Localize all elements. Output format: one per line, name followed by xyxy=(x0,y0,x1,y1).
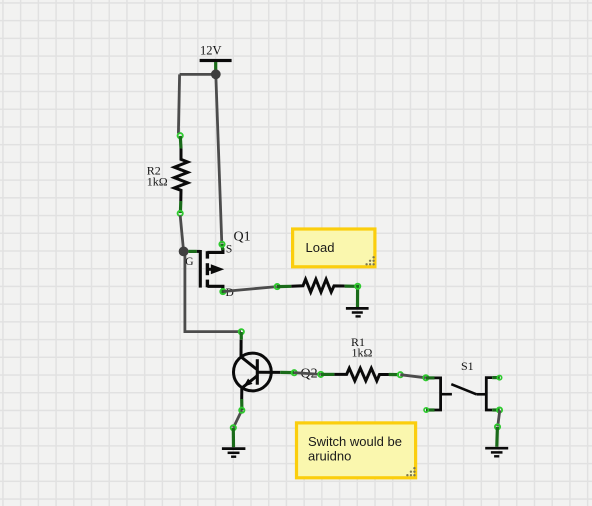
node ring Q2 base xyxy=(292,370,297,375)
wire Q2 base to R1 xyxy=(294,373,321,375)
wire Q2 emitter to ground xyxy=(233,410,242,428)
ground under Q2 emitter xyxy=(222,449,246,457)
svg-text:S1: S1 xyxy=(461,359,474,373)
wire S1 to ground xyxy=(498,410,500,426)
node square R1 left wire end xyxy=(318,372,323,377)
wire R1 to switch S1 xyxy=(400,375,426,378)
svg-text:Load: Load xyxy=(306,240,335,255)
note Switch box xyxy=(297,423,416,478)
svg-text:S: S xyxy=(226,244,232,256)
note Load box xyxy=(293,229,375,267)
svg-text:Q1: Q1 xyxy=(234,230,251,245)
resistor R1 xyxy=(321,368,399,381)
Q2 emitter terminal green xyxy=(240,399,243,410)
svg-text:D: D xyxy=(226,287,234,299)
junction dot at gate node xyxy=(179,247,189,257)
switch S1 xyxy=(426,378,500,410)
wire gate junction down and right to Q2 collector xyxy=(185,251,241,331)
svg-text:G: G xyxy=(185,256,193,268)
svg-text:1kΩ: 1kΩ xyxy=(352,346,373,360)
ground under load resistor xyxy=(346,308,369,316)
node square Q2 collector wire end xyxy=(239,329,244,334)
node square at load resistor left xyxy=(275,284,280,289)
svg-text:1kΩ: 1kΩ xyxy=(147,175,168,189)
node square emitter wire end xyxy=(231,425,236,430)
wire left vertical down to R2 xyxy=(178,74,179,133)
power supply V1 12V bar xyxy=(200,59,232,62)
node ring S1 top right xyxy=(497,375,501,379)
node square top of R2 xyxy=(178,133,183,138)
node ring S1 bottom right xyxy=(497,407,502,412)
MOSFET Q1 gate stub xyxy=(188,250,197,253)
Q2 base terminal green xyxy=(280,371,294,374)
node square S1 ground wire end xyxy=(495,424,500,429)
node square bottom of R2 xyxy=(178,211,183,216)
node ring S1 bottom left xyxy=(424,408,428,412)
note Switch resize grip xyxy=(406,467,415,476)
Q1 source terminal green xyxy=(220,244,224,250)
svg-text:12V: 12V xyxy=(200,43,222,57)
node square S1 left wire end xyxy=(423,375,428,380)
wire supply junction down to Q1 source xyxy=(216,74,222,243)
power supply terminal stub xyxy=(214,62,217,71)
node ring Q2 emitter stub xyxy=(239,408,244,413)
svg-text:Switch would be: Switch would be xyxy=(308,434,402,449)
junction dot at 12V node xyxy=(211,69,221,79)
resistor R2 xyxy=(174,136,187,213)
node square R1 right wire end xyxy=(398,372,403,377)
MOSFET Q1 xyxy=(197,248,224,288)
node square Q1 source xyxy=(219,242,224,247)
wire supply junction to left corner xyxy=(180,73,216,76)
note Load resize grip xyxy=(365,256,374,265)
transistor Q2 xyxy=(234,340,281,399)
Q2 collector terminal green xyxy=(240,332,243,340)
node square Q1 drain xyxy=(220,289,225,294)
Q1 drain terminal green xyxy=(221,288,224,294)
load resistor (unlabeled) xyxy=(277,279,358,307)
wire Q1 drain to load resistor xyxy=(223,287,276,292)
green wire emitter ground lead xyxy=(232,428,235,447)
wire R2 bottom to gate junction xyxy=(180,216,183,252)
green wire S1 ground lead xyxy=(495,427,499,447)
ground under S1 xyxy=(485,448,508,456)
svg-text:aruidno: aruidno xyxy=(308,449,351,464)
node square at load resistor right xyxy=(355,284,360,289)
